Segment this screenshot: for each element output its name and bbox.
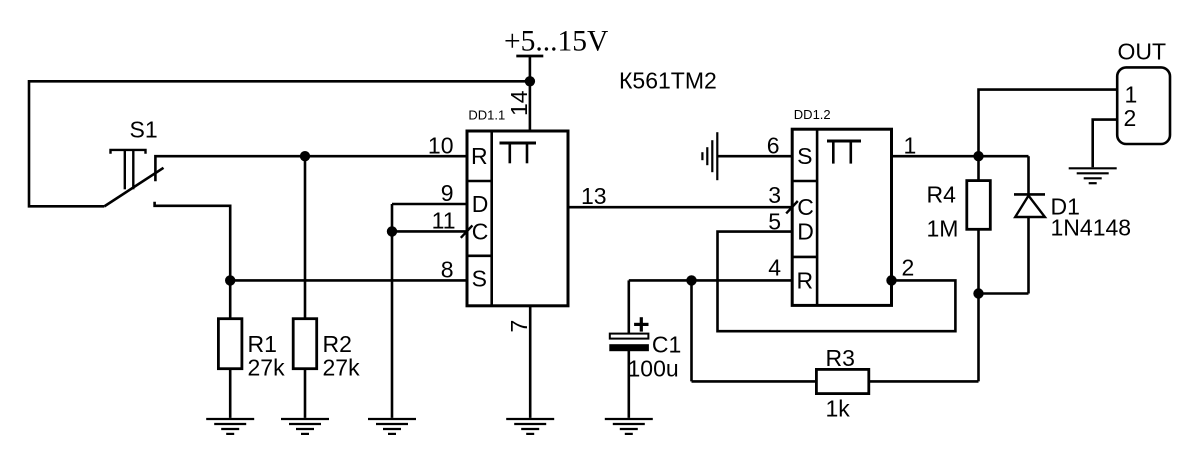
ground below R2	[281, 419, 329, 434]
DD1.1 TT symbol	[500, 143, 537, 163]
svg-text:R4: R4	[927, 181, 957, 207]
svg-text:11: 11	[432, 208, 456, 234]
svg-text:S1: S1	[130, 117, 158, 143]
svg-text:10: 10	[428, 132, 454, 158]
svg-text:8: 8	[441, 256, 454, 282]
junction dot S1/R2 node	[300, 151, 310, 161]
capacitor C1 upper lead	[627, 280, 630, 333]
resistor R4 upper lead	[977, 156, 980, 180]
resistor R2 lower lead	[304, 369, 307, 418]
op box DD1.1 outline	[467, 131, 568, 306]
svg-text:R: R	[796, 267, 813, 293]
svg-text:5: 5	[768, 209, 781, 235]
wire pin 1 node up to OUT pin 1	[979, 90, 1118, 157]
svg-text:2: 2	[902, 254, 915, 280]
junction dot pin 1 node	[973, 151, 983, 161]
svg-text:DD1.2: DD1.2	[794, 107, 831, 122]
svg-text:1: 1	[904, 132, 917, 158]
wire to pin 11 C input	[392, 230, 467, 233]
junction dot pin 2 node	[886, 275, 896, 285]
svg-text:1k: 1k	[826, 395, 851, 421]
svg-text:27k: 27k	[248, 355, 286, 381]
svg-text:3: 3	[768, 182, 781, 208]
wire R3 left lead	[692, 380, 817, 383]
junction dot C1/R3 node	[686, 275, 696, 285]
diode D1 lower lead	[1027, 217, 1030, 294]
ground below C1	[605, 419, 653, 434]
DD1.2 section divider S/CD	[792, 180, 817, 183]
resistor R2 lead	[304, 156, 307, 319]
wire power terminal to pin 14	[529, 56, 532, 131]
junction dot power node	[525, 76, 535, 86]
power terminal +5...15V bar	[516, 55, 543, 58]
svg-text:1N4148: 1N4148	[1051, 214, 1132, 240]
ground below D/C tie	[368, 419, 416, 434]
wire node down to R3 right	[977, 294, 980, 382]
ground below pin 7	[506, 419, 554, 434]
wire pin 7 to ground	[529, 306, 532, 418]
svg-text:S: S	[472, 265, 487, 291]
capacitor C1 lower lead	[627, 351, 630, 418]
junction dot R1/pin8 node	[225, 275, 235, 285]
svg-text:D: D	[797, 219, 814, 245]
switch S1 plunger stem left	[124, 150, 126, 189]
svg-text:4: 4	[768, 254, 781, 280]
DD1.1 section divider DC/S	[467, 255, 492, 258]
switch S1 plunger stem right	[132, 150, 134, 189]
svg-text:C: C	[472, 218, 489, 244]
ground below OUT pin 2	[1069, 168, 1117, 183]
wire S1 NC contact stub and wire to pin 10	[155, 156, 467, 181]
DD1.1 dynamic C input marker	[461, 225, 473, 237]
capacitor C1 top plate	[610, 334, 649, 339]
wire pin 1 output row	[892, 155, 1029, 158]
resistor R4 lower lead	[977, 229, 980, 293]
op box DD1.2 outline	[792, 129, 891, 305]
capacitor C1 bottom plate	[610, 345, 649, 351]
switch S1 plunger bar	[111, 150, 146, 154]
svg-text:13: 13	[581, 183, 607, 209]
resistor R4	[967, 181, 991, 230]
svg-text:C: C	[797, 194, 814, 220]
svg-text:1: 1	[1125, 82, 1138, 108]
svg-text:6: 6	[767, 132, 780, 158]
connector OUT body	[1117, 67, 1170, 144]
wire node to R3 left	[690, 280, 693, 381]
ground at pin 6 (rotated)	[702, 132, 717, 180]
wire pin 13 to pin 3	[568, 206, 792, 209]
diode D1 upper lead	[1027, 156, 1030, 195]
wire R3 right lead	[869, 380, 979, 383]
wire ground to pin 6 S input	[717, 155, 792, 158]
svg-text:К561ТМ2: К561ТМ2	[619, 68, 717, 94]
svg-text:S: S	[797, 143, 812, 169]
svg-text:R: R	[471, 143, 488, 169]
capacitor C1 plus sign	[634, 317, 648, 331]
wire top-left rail from +V node to switch common	[29, 81, 530, 206]
svg-text:R3: R3	[826, 345, 855, 371]
wire D1 bottom to node	[979, 292, 1029, 295]
svg-text:R2: R2	[323, 331, 352, 357]
DD1.2 TT symbol	[827, 141, 861, 164]
svg-text:14: 14	[506, 90, 532, 116]
wire OUT pin 2 to ground	[1093, 120, 1118, 168]
svg-text:2: 2	[1124, 105, 1137, 131]
svg-text:D: D	[472, 191, 489, 217]
svg-text:100u: 100u	[628, 356, 679, 382]
wire pin 8 row to DD1.1 S input	[230, 279, 467, 282]
switch S1 blade	[104, 168, 163, 207]
junction dot D/C tie node	[387, 226, 397, 236]
diode D1 cathode bar	[1014, 193, 1045, 196]
wire to pin 9 D input	[392, 203, 467, 206]
wire pin 2 feedback loop to pin 5 D input	[718, 232, 956, 332]
resistor R2	[293, 319, 317, 369]
DD1.2 pin column divider	[816, 129, 819, 305]
svg-text:OUT: OUT	[1118, 38, 1167, 64]
svg-text:27k: 27k	[323, 355, 361, 381]
junction dot R4/D1 bottom node	[973, 288, 983, 298]
wire D/C tie vertical to ground	[391, 204, 394, 418]
resistor R1	[218, 319, 242, 369]
svg-text:7: 7	[506, 320, 532, 333]
DD1.2 dynamic C input marker	[786, 201, 798, 213]
svg-text:9: 9	[441, 180, 454, 206]
DD1.1 pin column divider	[490, 131, 493, 306]
resistor R1 lead	[229, 280, 232, 318]
svg-text:C1: C1	[652, 332, 681, 358]
wire C1 to pin 4 R input	[629, 279, 792, 282]
DD1.2 section divider CD/R	[792, 256, 817, 259]
svg-text:+5...15V: +5...15V	[504, 25, 608, 57]
resistor R1 lower lead	[229, 369, 232, 418]
wire S1 lower contact to pin 8 row	[155, 202, 231, 281]
ground below R1	[206, 419, 254, 434]
svg-text:R1: R1	[248, 331, 277, 357]
resistor R3	[816, 369, 868, 393]
svg-text:DD1.1: DD1.1	[468, 107, 505, 122]
diode D1 triangle	[1015, 196, 1045, 217]
svg-text:1M: 1M	[927, 215, 959, 241]
DD1.1 section divider R/DC	[467, 180, 492, 183]
